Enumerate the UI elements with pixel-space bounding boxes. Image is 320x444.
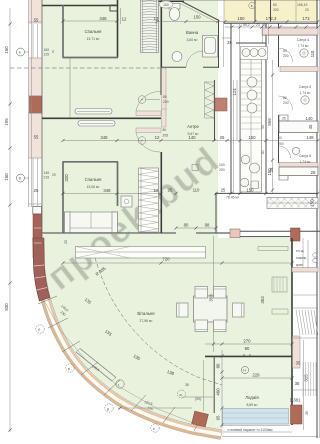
svg-text:55: 55 <box>34 135 39 140</box>
hall line y390 <box>292 389 318 391</box>
sanuz6 fan <box>292 147 299 154</box>
wall: sanuz4/5 divider <box>280 67 318 72</box>
window sash detail on curve <box>76 349 116 382</box>
svg-text:353: 353 <box>208 294 213 302</box>
svg-text:95: 95 <box>216 415 221 420</box>
red pier loggia east <box>291 405 303 424</box>
svg-text:д: д <box>107 407 109 411</box>
svg-text:8: 8 <box>243 354 245 358</box>
washbasin <box>172 52 182 62</box>
dim x265 details <box>261 125 265 129</box>
curved facade band (tan) <box>33 238 223 439</box>
kitchen unit column <box>240 58 261 192</box>
wall: duct x231 <box>230 23 232 193</box>
wall: bedroom1 box bottom <box>63 57 119 59</box>
svg-text:35: 35 <box>296 361 301 366</box>
svg-text:80: 80 <box>283 49 287 53</box>
svg-text:80: 80 <box>216 363 221 368</box>
svg-text:150: 150 <box>310 199 315 207</box>
pink jamb between doors <box>162 109 167 127</box>
svg-text:12: 12 <box>154 188 159 193</box>
dim text 195 <box>4 118 9 126</box>
dim 229 loggia <box>220 373 293 380</box>
window west 1 <box>29 24 42 58</box>
chair south-east <box>214 320 227 332</box>
svg-text:25: 25 <box>311 170 316 175</box>
watermark <box>39 138 227 298</box>
svg-text:200: 200 <box>283 54 289 58</box>
brick pier west 1 <box>30 96 42 113</box>
dim line y193.4 ticks <box>159 192 319 195</box>
svg-text:12: 12 <box>155 135 160 140</box>
arc dim 135b <box>104 329 113 338</box>
dim line y193 bedroom2 <box>61 188 161 195</box>
svg-text:200: 200 <box>283 101 289 105</box>
wall: sanuz6 south <box>279 163 318 168</box>
svg-text:35: 35 <box>185 383 189 387</box>
svg-text:8,89 м²: 8,89 м² <box>246 403 258 407</box>
wall: east building edge x317 <box>316 0 318 438</box>
svg-text:13,71 м²: 13,71 м² <box>87 37 101 41</box>
wall: yellow zone left x224 <box>223 0 225 22</box>
loggia floor <box>215 357 292 425</box>
wall: sanitary west x278.5 <box>278 23 280 163</box>
svg-text:Спальня: Спальня <box>85 29 102 34</box>
hall wall x303.5 <box>303 340 305 430</box>
white block below window2 <box>33 207 42 215</box>
svg-text:20: 20 <box>52 173 56 177</box>
svg-text:200: 200 <box>219 168 225 172</box>
svg-text:12: 12 <box>122 17 127 22</box>
vertical dim right edge 150 <box>310 199 315 207</box>
red pier y230 b <box>291 228 301 241</box>
dim 25 wall left <box>64 240 68 244</box>
svg-text:Спальня: Спальня <box>85 177 102 182</box>
svg-text:460: 460 <box>216 388 221 396</box>
svg-text:Сануз 5: Сануз 5 <box>299 85 311 89</box>
svg-text:200: 200 <box>163 100 169 104</box>
svg-text:219: 219 <box>44 176 50 180</box>
baseline y408 <box>118 406 192 409</box>
svg-text:148: 148 <box>306 135 314 140</box>
wardrobe antre (zigzag) <box>205 82 215 118</box>
radiator coil column x140-159 <box>141 0 159 53</box>
wall: living room north (y233) <box>42 232 232 234</box>
svg-text:160: 160 <box>44 48 50 52</box>
wall notch bedroom1 top-right <box>110 5 118 11</box>
wall: yellow south y23 <box>224 22 318 24</box>
svg-text:80: 80 <box>283 96 287 100</box>
svg-text:28: 28 <box>227 40 232 45</box>
svg-text:90: 90 <box>245 346 250 351</box>
corridor door arc 2 <box>136 133 161 153</box>
svg-text:80: 80 <box>163 128 167 132</box>
svg-text:78,45 м²: 78,45 м² <box>226 196 240 200</box>
hall east column lines <box>302 238 304 268</box>
chair north-west <box>195 287 208 299</box>
kitchen door symbol <box>192 165 198 171</box>
pink jamb upper <box>162 68 167 110</box>
vertical dims loggia west <box>220 350 223 428</box>
dresser bar 1 <box>75 109 112 115</box>
svg-text:1,381: 1,381 <box>290 398 301 403</box>
svg-text:Лоджія: Лоджія <box>245 395 258 400</box>
svg-text:45: 45 <box>308 124 313 129</box>
svg-text:(90): (90) <box>195 397 201 401</box>
wall: corridor east x161 <box>160 0 162 233</box>
arc bubble b <box>36 325 44 333</box>
hall stairs hatch <box>296 310 318 335</box>
brick pier loggia west (rotated) <box>192 411 209 427</box>
svg-text:1,74 м²: 1,74 м² <box>299 91 311 95</box>
grid bubble B <box>17 48 30 56</box>
shelf hall wall c <box>272 309 288 314</box>
dim 35 right col <box>305 411 309 415</box>
svg-text:348: 348 <box>99 16 107 21</box>
svg-text:348: 348 <box>103 188 111 193</box>
oval tag 160 top <box>159 1 173 8</box>
wall: between bedrooms y118 <box>42 117 161 119</box>
window west 2 <box>29 158 42 206</box>
wall: y193 kitchen south <box>215 192 318 194</box>
svg-text:12: 12 <box>154 16 159 21</box>
arc bubble g <box>116 380 124 388</box>
wall: bedroom1 box right <box>117 0 119 58</box>
hall lower hatch <box>303 362 316 396</box>
door tag circle 1 <box>138 96 160 104</box>
sanuz4 door arc <box>279 48 293 62</box>
svg-text:Ванна: Ванна <box>186 30 199 35</box>
wall: bath east x218.5 <box>218 20 220 69</box>
svg-text:315: 315 <box>304 374 309 382</box>
wall: x216 below kitchen <box>215 193 217 233</box>
wall: bath bottom <box>161 66 219 68</box>
R485 dashed arc <box>95 258 222 385</box>
arc dim 138 <box>132 353 141 361</box>
wall: bath diagonal <box>182 2 218 21</box>
svg-text:195: 195 <box>4 118 9 126</box>
wall: antre east x214.5 <box>214 80 216 141</box>
svg-text:25: 25 <box>34 188 39 193</box>
arc dim 120/8 235 <box>142 400 154 411</box>
svg-text:20: 20 <box>305 8 309 12</box>
chair north-east <box>214 287 227 299</box>
red pier y230 a <box>230 229 240 238</box>
sanuz5 fan <box>301 96 309 104</box>
dim line top (y21.5) <box>155 20 319 23</box>
dim line 720 <box>61 257 293 265</box>
svg-text:80: 80 <box>163 95 167 99</box>
svg-text:160: 160 <box>4 46 9 54</box>
svg-text:35: 35 <box>295 381 300 386</box>
svg-text:Сануз 4: Сануз 4 <box>297 38 309 42</box>
svg-text:100: 100 <box>219 163 225 167</box>
svg-text:110: 110 <box>310 50 315 57</box>
svg-text:80: 80 <box>184 223 189 228</box>
brick pier west 2 (straight) <box>33 214 42 258</box>
chair east <box>233 303 245 317</box>
dim text 160 <box>4 46 9 54</box>
svg-text:25: 25 <box>168 188 173 193</box>
bath door gap arc <box>186 51 203 67</box>
svg-text:Сануз 6: Сануз 6 <box>299 154 311 158</box>
nightstand bedroom2 <box>121 196 132 207</box>
wall: loggia inner x203.5 <box>203 360 205 411</box>
svg-text:160: 160 <box>163 3 169 7</box>
svg-text:80: 80 <box>273 3 277 7</box>
svg-text:13,06 м²: 13,06 м² <box>87 185 101 189</box>
svg-text:е: е <box>153 427 155 431</box>
wall: top edge east part <box>157 0 320 2</box>
svg-text:200: 200 <box>273 8 279 12</box>
svg-text:ел.щ: ел.щ <box>296 249 304 253</box>
svg-text:124: 124 <box>232 88 237 96</box>
loggia glazing strip <box>223 409 289 425</box>
wall: kitchen east x266 <box>265 23 267 193</box>
hall dim vline <box>307 240 309 268</box>
radial ticks on curve <box>38 296 57 304</box>
shelf hall wall b <box>258 247 288 251</box>
wall: bath top <box>157 0 184 2</box>
wall: bedroom1 top <box>42 5 118 7</box>
svg-text:7,74 м²: 7,74 м² <box>297 44 309 48</box>
svg-text:92: 92 <box>263 23 267 27</box>
svg-text:28: 28 <box>269 167 274 172</box>
wall: loggia north y356 <box>205 355 292 357</box>
svg-text:Л: Л <box>52 50 54 54</box>
dashed ceiling line <box>10 67 160 69</box>
svg-text:353: 353 <box>260 296 265 304</box>
svg-text:720: 720 <box>162 257 170 262</box>
svg-text:145: 145 <box>44 171 50 175</box>
apartment floor (green) <box>42 0 292 430</box>
sanuz5 door arc <box>279 96 293 110</box>
vertical dim 556 <box>271 60 274 193</box>
parapet line under loggia <box>222 425 290 427</box>
dim text 160b <box>4 173 9 181</box>
svg-text:55: 55 <box>34 18 39 23</box>
svg-text:9,67 м²: 9,67 м² <box>187 132 199 136</box>
dining table <box>194 296 228 322</box>
svg-text:1,74 м²: 1,74 м² <box>299 160 311 164</box>
vertical dim 353 table <box>208 294 213 302</box>
neighbour zone (yellow) <box>224 0 318 22</box>
wall: kitchen west face x239.5 <box>239 23 241 193</box>
svg-text:сталевий парапет h=1100мм: сталевий парапет h=1100мм <box>228 428 274 432</box>
R485 label <box>95 265 108 276</box>
wall: loggia west x214 <box>213 356 215 413</box>
svg-text:пожеж.: пожеж. <box>296 256 307 260</box>
svg-text:кран: кран <box>296 263 303 267</box>
svg-text:270: 270 <box>243 339 251 344</box>
chair south-west <box>195 320 208 332</box>
dim text 830 <box>4 303 9 311</box>
wall: bedroom2 left <box>62 162 64 234</box>
svg-text:150: 150 <box>246 188 254 193</box>
svg-text:173: 173 <box>302 16 310 21</box>
svg-text:б: б <box>38 328 40 332</box>
tag 28 sanuz6 <box>269 167 274 172</box>
svg-text:219: 219 <box>44 53 50 57</box>
svg-text:Антре: Антре <box>187 124 199 129</box>
dresser bar 2 <box>78 121 115 127</box>
wall: hall west x292 <box>291 238 293 425</box>
wall: duct x223.5 <box>223 22 225 67</box>
svg-text:348: 348 <box>100 135 108 140</box>
dim 348 bedroom1 inner (y138) <box>61 139 319 142</box>
extension line x213.5 <box>213 236 215 352</box>
svg-text:205: 205 <box>163 134 169 138</box>
svg-text:98: 98 <box>205 223 210 228</box>
sideboard living <box>76 247 206 259</box>
svg-text:229: 229 <box>252 373 260 378</box>
hall cross lines <box>292 294 318 296</box>
svg-text:27,96 м²: 27,96 м² <box>140 319 154 323</box>
arc bubble d <box>105 404 113 412</box>
dim hline y397 <box>182 396 213 398</box>
dim line 270 loggia <box>205 339 294 358</box>
wall: sanuz5/6 divider (T) <box>279 115 288 121</box>
svg-text:556: 556 <box>267 118 272 126</box>
wall: yellow internal <box>254 0 256 22</box>
svg-text:110: 110 <box>193 188 200 193</box>
svg-text:3,60 м²: 3,60 м² <box>186 38 198 42</box>
svg-text:320: 320 <box>64 174 69 182</box>
vertical dim right edge 45 <box>308 124 313 129</box>
chair west <box>177 303 189 317</box>
svg-text:172,3: 172,3 <box>266 16 277 21</box>
arc bubble e <box>151 424 159 432</box>
exterior wall west (fill) <box>29 0 43 207</box>
toilet <box>169 4 180 21</box>
arc dim 135a <box>84 297 93 306</box>
loggia east wall pink <box>293 336 301 368</box>
bottom line <box>222 436 318 438</box>
vertical dim 353 hall <box>260 296 265 304</box>
svg-text:Вітальня: Вітальня <box>137 311 154 316</box>
svg-text:25: 25 <box>221 188 226 193</box>
dim line west column <box>8 8 11 432</box>
hall circles right <box>313 253 317 257</box>
bed/sofa bedroom2 <box>65 212 118 233</box>
arc bubble v <box>66 364 74 372</box>
svg-text:80: 80 <box>261 150 265 154</box>
svg-text:25: 25 <box>282 117 286 121</box>
svg-text:59,2: 59,2 <box>243 23 250 27</box>
wall: bedroom2 top <box>63 161 119 163</box>
svg-text:в: в <box>251 4 253 8</box>
page edge x319 <box>318 0 320 438</box>
svg-text:55: 55 <box>261 125 265 129</box>
curved brick segment <box>33 238 50 301</box>
wall: bedroom1 box left <box>62 5 64 58</box>
exterior wall west faces <box>28 0 30 207</box>
svg-text:150: 150 <box>248 135 256 140</box>
band tan stripe inner <box>40 238 221 432</box>
svg-text:80: 80 <box>278 136 282 140</box>
corridor door arc 1 <box>136 91 161 111</box>
wall: living/hall divider y231 east <box>232 231 320 236</box>
svg-text:140: 140 <box>305 116 313 121</box>
brick pier antre <box>215 98 227 111</box>
extension line x70 <box>69 57 71 118</box>
arc dim 140/6 230 <box>57 304 70 317</box>
svg-text:в: в <box>68 367 70 371</box>
svg-text:9: 9 <box>249 354 251 358</box>
vertical dim right edge 315 <box>304 374 309 382</box>
wall: bedroom2 right <box>117 162 119 207</box>
bathtub <box>203 36 218 58</box>
circled v yellow <box>249 2 255 8</box>
sanuz6 door arc <box>279 146 291 158</box>
svg-text:25: 25 <box>220 135 225 140</box>
dim line y228 <box>174 223 217 230</box>
sanuz4 fan <box>300 49 308 57</box>
svg-text:160: 160 <box>4 173 9 181</box>
svg-text:23: 23 <box>256 23 260 27</box>
dim line y27 <box>225 25 320 28</box>
vertical dim 320 bedroom2 <box>64 174 69 182</box>
wall: sanitary north (pink) <box>262 28 318 35</box>
svg-text:35: 35 <box>305 411 309 415</box>
svg-text:150: 150 <box>237 16 245 21</box>
worktop hatched <box>267 198 318 209</box>
vertical dim 124 <box>236 80 238 140</box>
svg-text:150: 150 <box>193 15 201 20</box>
dim chain along arc <box>44 300 196 424</box>
wall: hall cross y270 <box>292 268 318 273</box>
vertical dim right edge 110 <box>310 50 315 57</box>
svg-text:200: 200 <box>278 142 284 146</box>
svg-text:25: 25 <box>64 240 68 244</box>
door tag circle 2 <box>138 137 146 145</box>
dim 348 bedroom1 <box>61 16 118 23</box>
svg-text:830: 830 <box>4 303 9 311</box>
grid bubble V <box>17 174 30 182</box>
wardrobe bedroom2 (tall zigzag) <box>139 168 159 232</box>
corridor door leaf 2 (pink) <box>136 128 161 133</box>
svg-text:156,19: 156,19 <box>297 3 307 7</box>
band tan stripe outer <box>34 239 221 438</box>
bubble H loggia <box>241 366 248 373</box>
radiator hall wall a <box>272 277 287 292</box>
arc bubble zh <box>178 390 186 398</box>
vent block 3 circles <box>241 47 268 60</box>
corridor door leaf 1 (pink) <box>136 111 161 116</box>
